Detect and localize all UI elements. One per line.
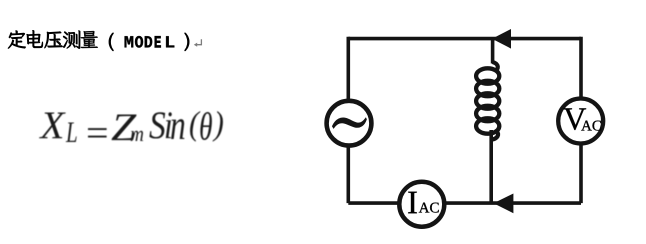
AC source (sine generator) bbox=[327, 101, 372, 146]
wire left bbox=[346, 37, 350, 203]
voltmeter VAC bbox=[558, 99, 603, 144]
ammeter IAC bbox=[399, 182, 444, 227]
arrow top (current direction into top node) bbox=[492, 29, 511, 49]
formula X_L = Z_m Sin(theta) bbox=[0, 0, 646, 1]
wire top bbox=[348, 37, 581, 41]
arrow bottom (current direction into bottom node) bbox=[494, 194, 514, 214]
wire right bbox=[579, 37, 583, 203]
inductor L1 (coil) bbox=[476, 62, 499, 140]
paragraph return mark bbox=[194, 39, 202, 47]
wire middle branch bbox=[491, 39, 492, 204]
title text: 定电压测量（MODE L） bbox=[8, 30, 189, 51]
wire bottom bbox=[348, 201, 581, 205]
